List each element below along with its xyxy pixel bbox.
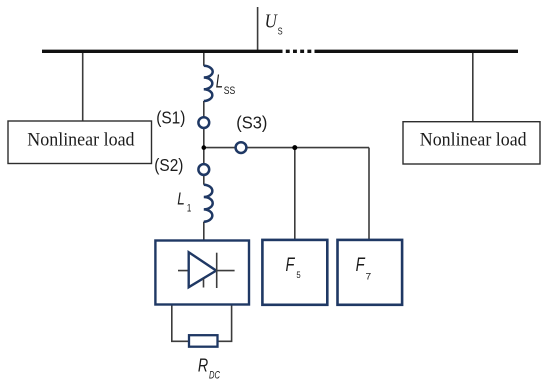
svg-text:L: L (216, 71, 223, 91)
svg-text:SS: SS (224, 85, 236, 97)
svg-text:F: F (356, 255, 366, 276)
svg-text:R: R (198, 355, 208, 376)
svg-text:(S1): (S1) (156, 107, 185, 127)
svg-text:S: S (278, 26, 283, 37)
svg-text:F: F (286, 255, 296, 276)
svg-text:Nonlinear load: Nonlinear load (27, 131, 135, 151)
svg-text:L: L (177, 188, 185, 208)
svg-text:(S3): (S3) (236, 112, 267, 132)
svg-text:5: 5 (296, 270, 300, 281)
svg-text:U: U (265, 10, 279, 32)
svg-text:Nonlinear load: Nonlinear load (420, 131, 528, 151)
svg-text:DC: DC (209, 370, 220, 382)
svg-text:1: 1 (187, 202, 191, 214)
svg-text:7: 7 (366, 271, 372, 282)
svg-text:(S2): (S2) (154, 155, 183, 175)
